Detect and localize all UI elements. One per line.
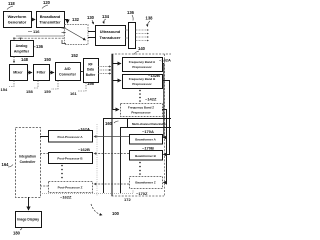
frequency band A preprocessor box [123,58,163,72]
svg-text:~162Z: ~162Z [60,195,72,200]
post-processor B box [49,153,93,164]
wire beamformer Z to post-processor Z [94,183,129,185]
svg-text:132: 132 [72,17,80,22]
svg-text:Transducer: Transducer [100,35,121,40]
svg-text:120: 120 [43,0,51,5]
svg-text:Frequency Band B: Frequency Band B [129,77,156,81]
label 160 (multi-channel buffer ref) [105,121,119,126]
ellipsis dots preprocessors [139,90,141,102]
svg-text:Beamformer Z: Beamformer Z [135,181,156,185]
wire amplifier to mixer [13,56,15,63]
label 164 (controller ref) [2,162,14,167]
wires switch to transducer [88,32,95,38]
image display box [16,212,42,228]
receiver dashed container [112,54,172,196]
svg-text:~162B: ~162B [78,147,90,152]
svg-text:Filter: Filter [37,71,46,75]
beamformer Z box [130,177,163,189]
wire controller to post-processor A [40,136,48,138]
svg-text:Waveform: Waveform [8,14,27,19]
svg-text:~142Z: ~142Z [145,97,157,102]
wire waveform generator to transmitter [31,19,35,21]
waveform generator box [4,12,32,28]
svg-text:Broadband: Broadband [40,14,61,19]
svg-text:148: 148 [21,57,29,62]
second vertical bus [121,128,128,194]
svg-text:Amplifier: Amplifier [14,50,30,54]
svg-text:Frequency Band A: Frequency Band A [129,60,156,64]
svg-text:Post-Processor A: Post-Processor A [57,135,83,139]
svg-text:Beamformer B: Beamformer B [135,154,157,158]
frequency band Z preprocessor box [121,104,163,117]
svg-text:134: 134 [102,14,110,19]
label 154 hook (mixer lo) [1,81,15,93]
wire buffer to left bus [104,119,128,194]
svg-text:Integration: Integration [19,155,36,159]
wire bus to preprocessor Z [113,109,119,111]
svg-text:158: 158 [26,89,33,94]
svg-text:180: 180 [13,231,21,236]
wire controller to post-processor Z [40,185,48,187]
svg-text:Preprocessor: Preprocessor [132,65,152,69]
mixer box [10,65,28,81]
label 159 hook (A/D ctrl) [44,81,58,95]
label 132 (switch ref) [72,17,80,22]
svg-text:Transmitter: Transmitter [39,20,61,25]
wire filter to A/D converter [49,72,54,74]
control line to beamformers (172) [40,190,133,202]
wires buffer to receiver bus [98,67,111,74]
label 150 (filter ref) [44,57,52,62]
transducer array element [125,23,136,49]
ultrasound beams [136,30,149,41]
broadband transmitter box [37,12,65,28]
svg-text:Multi-channel Data Buffer: Multi-channel Data Buffer [132,122,168,126]
label 142B [148,73,160,78]
svg-text:Buffer: Buffer [86,73,96,77]
label 134 (transducer ref) [102,14,110,24]
label 130 (switch-transducer lines ref) [87,15,95,24]
svg-text:~170A: ~170A [142,129,154,134]
label 161 hook (buffer ctrl) [70,83,86,97]
wire beamformer B to post-processor B [94,153,129,155]
label 170Z [136,191,148,196]
processing subsystem dotted edge [96,124,98,196]
wire mixer to filter [27,72,32,74]
svg-text:Post-Processor Z: Post-Processor Z [58,186,83,190]
svg-text:~170Z: ~170Z [136,191,148,196]
svg-text:Frequency Band Z: Frequency Band Z [128,106,154,110]
wire controller to post-processor B [40,153,48,155]
svg-text:Converter: Converter [59,73,77,77]
ellipsis dots post-processors [61,165,63,179]
system reference arrow 100 [91,204,120,216]
svg-text:100: 100 [112,211,120,216]
label 180 [13,228,22,236]
svg-text:Data: Data [87,68,94,72]
filter box [34,65,50,81]
wire switch to analog amplifier (receive path) [14,36,64,40]
svg-text:Beamformer A: Beamformer A [135,138,156,142]
svg-text:Ultrasound: Ultrasound [100,29,121,34]
svg-text:156: 156 [87,81,95,86]
svg-text:172: 172 [124,197,131,202]
svg-text:A/D: A/D [64,67,71,71]
svg-text:Post-Processor B: Post-Processor B [57,157,83,161]
svg-text:140: 140 [138,46,146,51]
label 116 (receive line ref) [28,29,40,34]
label 162Z [60,195,72,200]
beamformer B box [130,151,163,161]
svg-text:136: 136 [127,10,135,15]
wire preprocessor Z output stub [162,110,167,183]
svg-text:Preprocessor: Preprocessor [132,82,152,86]
label 162A [78,127,90,132]
wire beamformer A to post-processor A [94,136,129,138]
svg-text:~170B: ~170B [142,146,154,151]
svg-text:160: 160 [105,121,113,126]
wire preprocessor A output down right side [162,64,164,138]
svg-text:159: 159 [44,89,51,94]
wire bus to preprocessor A [113,63,121,65]
svg-text:130: 130 [87,15,95,20]
A/D converter box [56,63,81,81]
svg-text:Analog: Analog [16,44,28,48]
wire controller to image display [28,197,30,210]
RF data buffer box [84,59,99,83]
svg-text:116: 116 [33,29,40,34]
label 118 (waveform generator ref) [7,1,15,10]
beamformer A box [130,135,163,145]
label 140 (receiver ref) [134,46,146,55]
label 136 (array element ref) [127,10,135,21]
svg-text:154: 154 [1,87,8,92]
frequency band B preprocessor box [123,75,163,89]
analog amplifier box [11,41,34,57]
T/R switch box [62,25,89,45]
label 170A [142,129,154,134]
label 156 (buffer ref) [87,81,95,86]
ellipsis dots beamformers [139,162,141,175]
integration controller box [16,128,41,198]
label 162B [78,147,90,152]
post-processor Z box [49,182,93,193]
multi-channel data buffer box [128,119,172,128]
svg-text:136: 136 [36,44,44,49]
wire A/D to data buffer [80,71,83,73]
svg-text:118: 118 [8,1,15,6]
svg-text:150: 150 [44,57,52,62]
svg-text:161: 161 [70,91,77,96]
label 138 (beam ref) [146,16,154,27]
svg-text:138: 138 [146,16,154,21]
label 120 (transmitter ref) [42,0,51,9]
label 152 (A/D ref) [71,53,79,58]
svg-text:Mixer: Mixer [13,71,23,75]
ultrasound transducer box [96,26,126,46]
label 142Z [145,97,157,102]
wire preprocessor B output down right side [162,81,170,155]
svg-text:Generator: Generator [8,20,27,25]
svg-text:Controller: Controller [20,160,36,164]
label 170B [142,146,154,151]
svg-text:~142A: ~142A [159,58,171,63]
svg-text:152: 152 [71,53,79,58]
svg-text:Image Display: Image Display [17,218,39,222]
wire bus to preprocessor B [113,80,121,82]
svg-text:Preprocessor: Preprocessor [131,111,151,115]
label 136b (amplifier ref) [34,44,44,49]
receiver input bus [112,54,114,110]
svg-text:164: 164 [2,162,10,167]
svg-text:RF: RF [88,63,92,67]
label 158 hook (filter ctrl) [26,81,38,95]
label 142A [159,58,171,63]
label 148 (mixer ref) [21,57,29,62]
post-processor A box [49,131,93,143]
wire transmitter to T/R switch [64,20,68,24]
